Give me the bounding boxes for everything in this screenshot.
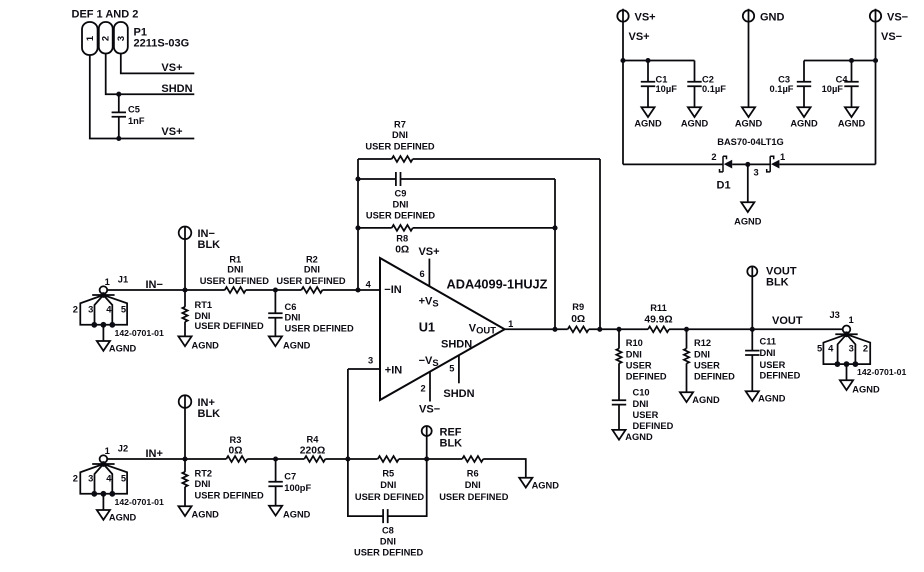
node R12 junction	[684, 327, 689, 332]
capacitor C8 loop	[348, 459, 427, 516]
terminal GND	[743, 10, 754, 21]
node SHDN junction	[116, 92, 121, 97]
svg-text:USER DEFINED: USER DEFINED	[366, 211, 436, 221]
svg-text:VS+: VS+	[629, 31, 650, 43]
svg-text:5: 5	[449, 364, 454, 374]
svg-text:C11: C11	[760, 337, 777, 347]
svg-text:VS−: VS−	[887, 12, 908, 24]
svg-text:R6: R6	[467, 468, 479, 478]
svg-text:2: 2	[421, 383, 426, 393]
svg-text:4: 4	[106, 303, 112, 314]
svg-text:DNI: DNI	[626, 350, 642, 360]
svg-text:R4: R4	[307, 434, 320, 444]
ground AGND under C11	[746, 391, 759, 401]
svg-text:C1: C1	[656, 74, 668, 84]
U1 pin 6 wire	[428, 259, 430, 286]
svg-text:BLK: BLK	[440, 437, 463, 449]
svg-text:R10: R10	[626, 338, 643, 348]
U1 pin 5 wire	[458, 355, 460, 383]
node output junction	[552, 327, 557, 332]
svg-text:1: 1	[780, 152, 785, 162]
svg-text:DEFINED: DEFINED	[633, 421, 674, 431]
svg-text:C2: C2	[702, 74, 714, 84]
connector J2	[80, 455, 127, 510]
svg-text:142-0701-01: 142-0701-01	[857, 367, 906, 377]
wire P1 pin3 to VS+	[121, 54, 195, 74]
svg-text:VS−: VS−	[881, 31, 902, 43]
svg-text:1: 1	[849, 314, 854, 325]
capacitor C3	[803, 61, 805, 108]
ground AGND under J2	[97, 510, 110, 520]
svg-text:R2: R2	[306, 254, 318, 264]
resistor R10	[616, 349, 621, 364]
svg-text:142-0701-01: 142-0701-01	[115, 497, 164, 507]
ground AGND under R12	[680, 392, 693, 402]
svg-text:DNI: DNI	[760, 348, 776, 358]
capacitor C4	[851, 61, 853, 108]
svg-text:IN+: IN+	[146, 448, 163, 460]
connector J1	[80, 286, 127, 341]
node VS- bus junction	[873, 58, 878, 63]
node C7 junction	[273, 456, 278, 461]
svg-text:2: 2	[100, 36, 111, 41]
svg-text:USER DEFINED: USER DEFINED	[195, 321, 265, 331]
wire C9 rail down	[554, 179, 556, 329]
capacitor C2	[694, 61, 696, 108]
connector P1	[82, 22, 128, 55]
svg-text:5: 5	[121, 472, 126, 483]
node C9 left junction	[355, 176, 360, 181]
svg-text:USER DEFINED: USER DEFINED	[439, 492, 509, 502]
svg-text:1: 1	[508, 319, 513, 329]
connector J3	[823, 326, 870, 381]
svg-text:AGND: AGND	[625, 432, 653, 442]
capacitor C6	[274, 290, 276, 336]
svg-text:J3: J3	[830, 310, 840, 320]
svg-text:C3: C3	[778, 74, 790, 84]
svg-text:3: 3	[115, 36, 126, 41]
svg-text:DNI: DNI	[694, 350, 710, 360]
node C11 junction	[750, 327, 755, 332]
svg-text:BLK: BLK	[198, 239, 221, 251]
svg-text:142-0701-01: 142-0701-01	[115, 328, 164, 338]
svg-text:C5: C5	[128, 104, 140, 114]
svg-text:DNI: DNI	[380, 537, 396, 547]
svg-text:RT2: RT2	[195, 468, 213, 478]
svg-text:R12: R12	[694, 338, 711, 348]
wire VS- cap bus	[804, 60, 876, 62]
svg-text:DNI: DNI	[227, 264, 243, 274]
svg-text:AGND: AGND	[192, 510, 220, 520]
ground AGND under GND	[742, 107, 755, 117]
svg-text:−VS: −VS	[419, 355, 439, 368]
diode D1 right half	[767, 156, 780, 172]
svg-text:AGND: AGND	[283, 510, 311, 520]
node -IN junction	[355, 287, 360, 292]
svg-text:3: 3	[368, 355, 373, 365]
resistor R3	[226, 456, 247, 462]
capacitor C7	[275, 459, 277, 506]
wire U1 output to R9	[505, 328, 568, 330]
svg-text:SHDN: SHDN	[443, 388, 474, 400]
wire R6 to ground	[483, 459, 526, 478]
svg-text:C10: C10	[633, 388, 650, 398]
wire VS+ vertical	[622, 9, 624, 165]
svg-text:VOUT: VOUT	[469, 322, 496, 335]
svg-text:C7: C7	[284, 472, 296, 482]
svg-text:1nF: 1nF	[128, 116, 145, 126]
svg-text:ADA4099-1HUJZ: ADA4099-1HUJZ	[447, 277, 548, 292]
svg-text:220Ω: 220Ω	[300, 445, 325, 456]
ground AGND under C1	[641, 107, 654, 117]
svg-text:USER: USER	[760, 360, 786, 370]
resistor R12	[684, 349, 689, 364]
wire J1 to R1	[107, 289, 380, 291]
wire R4 to R5 node	[325, 458, 377, 460]
svg-text:DEFINED: DEFINED	[760, 370, 801, 380]
resistor R1	[225, 287, 246, 293]
svg-text:+IN: +IN	[385, 364, 402, 376]
svg-text:DEF 1 AND 2: DEF 1 AND 2	[72, 9, 139, 21]
svg-text:AGND: AGND	[734, 217, 762, 227]
svg-text:AGND: AGND	[735, 119, 763, 129]
svg-text:AGND: AGND	[192, 340, 220, 350]
svg-text:R1: R1	[229, 254, 241, 264]
svg-text:DNI: DNI	[195, 479, 211, 489]
svg-text:AGND: AGND	[758, 394, 786, 404]
svg-text:IN−: IN−	[146, 279, 163, 291]
resistor R2	[301, 287, 322, 293]
ground AGND under C2	[688, 107, 701, 117]
resistor R11	[648, 326, 669, 332]
svg-text:AGND: AGND	[634, 119, 662, 129]
node RT1 junction	[182, 287, 187, 292]
svg-text:1: 1	[105, 276, 110, 287]
ground AGND under C3	[797, 107, 810, 117]
svg-text:DNI: DNI	[380, 480, 396, 490]
svg-text:C6: C6	[285, 302, 297, 312]
resistor RT2	[182, 472, 187, 487]
svg-text:1: 1	[84, 36, 95, 41]
svg-text:DNI: DNI	[465, 480, 481, 490]
svg-text:SHDN: SHDN	[441, 338, 472, 350]
svg-text:3: 3	[849, 343, 854, 354]
svg-text:2: 2	[73, 472, 78, 483]
svg-text:AGND: AGND	[692, 395, 720, 405]
svg-text:AGND: AGND	[852, 385, 880, 395]
svg-text:2: 2	[711, 152, 716, 162]
svg-text:AGND: AGND	[838, 119, 866, 129]
svg-text:10µF: 10µF	[656, 84, 678, 94]
ground AGND under C4	[845, 107, 858, 117]
svg-text:100pF: 100pF	[284, 483, 311, 493]
resistor R7	[358, 158, 600, 160]
terminal IN- BLK	[179, 227, 192, 240]
wire GND vertical	[748, 9, 750, 107]
wire VS+ rail to D1	[623, 163, 723, 165]
ground AGND under C10	[612, 430, 625, 440]
svg-text:0.1µF: 0.1µF	[770, 84, 794, 94]
svg-text:C4: C4	[836, 74, 849, 84]
svg-text:USER: USER	[626, 361, 652, 371]
resistor R9	[568, 326, 589, 332]
svg-text:5: 5	[817, 343, 822, 354]
ground AGND under J1	[97, 341, 110, 351]
node REF junction	[424, 456, 429, 461]
wire D1 to VS- rail	[779, 163, 875, 165]
U1 pin 2 wire	[429, 372, 431, 402]
svg-text:DEFINED: DEFINED	[626, 372, 667, 382]
node C4 junction	[849, 58, 854, 63]
svg-text:VS+: VS+	[161, 62, 182, 74]
svg-text:6: 6	[420, 269, 425, 279]
svg-text:VOUT: VOUT	[772, 315, 803, 327]
svg-text:0Ω: 0Ω	[571, 314, 585, 325]
svg-text:BLK: BLK	[198, 408, 221, 420]
svg-text:49.9Ω: 49.9Ω	[644, 314, 672, 325]
capacitor C11	[751, 329, 753, 391]
svg-text:4: 4	[366, 280, 372, 290]
svg-text:USER DEFINED: USER DEFINED	[285, 324, 355, 334]
diode D1 left half	[720, 156, 733, 172]
svg-text:USER DEFINED: USER DEFINED	[200, 276, 270, 286]
node R10 junction	[616, 327, 621, 332]
svg-text:0Ω: 0Ω	[395, 245, 409, 256]
svg-text:10µF: 10µF	[822, 84, 844, 94]
terminal VOUT BLK	[747, 266, 757, 276]
svg-text:VS+: VS+	[418, 246, 439, 258]
svg-text:2211S-03G: 2211S-03G	[134, 38, 190, 50]
svg-text:USER DEFINED: USER DEFINED	[354, 548, 424, 558]
wire R5 to REF node	[399, 458, 462, 460]
terminal VS-	[870, 10, 881, 21]
resistor RT1	[182, 307, 187, 322]
svg-text:DNI: DNI	[392, 130, 408, 140]
svg-text:GND: GND	[760, 12, 785, 24]
ground AGND under C6	[269, 336, 282, 346]
svg-text:VS+: VS+	[635, 12, 656, 24]
ground AGND after R6	[519, 478, 532, 488]
svg-text:C8: C8	[382, 526, 394, 536]
svg-text:+VS: +VS	[419, 295, 439, 308]
svg-text:C9: C9	[395, 189, 407, 199]
resistor R8	[358, 227, 555, 229]
wire -IN rail	[357, 159, 359, 290]
wire +IN riser	[348, 369, 380, 459]
svg-text:USER DEFINED: USER DEFINED	[195, 490, 265, 500]
node R8 left junction	[355, 225, 360, 230]
svg-text:AGND: AGND	[790, 119, 818, 129]
wire D1 center	[732, 163, 770, 165]
svg-text:R9: R9	[572, 302, 584, 312]
node C6 junction	[273, 287, 278, 292]
op-amp U1	[380, 258, 505, 400]
node feedback junction	[597, 327, 602, 332]
capacitor C5	[118, 94, 120, 138]
svg-text:U1: U1	[419, 319, 435, 334]
svg-text:DNI: DNI	[195, 311, 211, 321]
svg-text:R5: R5	[382, 468, 394, 478]
svg-text:4: 4	[828, 343, 834, 354]
svg-text:D1: D1	[717, 180, 731, 192]
node D1 pin 3	[745, 162, 750, 167]
svg-text:3: 3	[754, 168, 759, 178]
node C5 bottom junction	[116, 136, 121, 141]
svg-text:AGND: AGND	[109, 512, 137, 522]
svg-text:BLK: BLK	[766, 276, 789, 288]
node R8 right junction	[552, 225, 557, 230]
svg-text:R3: R3	[230, 435, 242, 445]
svg-text:3: 3	[88, 303, 93, 314]
wire VS- vertical	[875, 9, 877, 165]
wire P1 pin1 to VS+	[90, 55, 195, 139]
svg-text:5: 5	[121, 303, 126, 314]
wire D1 pin3 to ground	[747, 164, 749, 202]
svg-text:DNI: DNI	[392, 199, 408, 209]
svg-text:USER DEFINED: USER DEFINED	[355, 492, 425, 502]
node VS+ bus junction	[620, 58, 625, 63]
svg-text:DNI: DNI	[304, 264, 320, 274]
svg-text:DNI: DNI	[285, 312, 301, 322]
capacitor C9	[358, 178, 555, 180]
resistor R6	[462, 456, 483, 462]
resistor R4	[304, 456, 325, 462]
svg-text:AGND: AGND	[532, 480, 560, 490]
svg-text:4: 4	[106, 472, 112, 483]
node RT2 junction	[182, 456, 187, 461]
ground AGND under D1	[741, 202, 754, 212]
wire R7 to output	[599, 159, 601, 329]
wire P1 pin2 to SHDN	[106, 54, 195, 95]
svg-text:DEFINED: DEFINED	[694, 372, 735, 382]
svg-text:AGND: AGND	[681, 119, 709, 129]
svg-text:USER DEFINED: USER DEFINED	[276, 276, 346, 286]
terminal REF BLK	[422, 426, 432, 436]
node C1 junction	[645, 58, 650, 63]
svg-text:USER DEFINED: USER DEFINED	[365, 141, 435, 151]
svg-text:2: 2	[73, 303, 78, 314]
svg-text:0Ω: 0Ω	[229, 445, 243, 456]
svg-text:J2: J2	[118, 443, 128, 453]
capacitor C1	[647, 61, 649, 108]
svg-text:VS+: VS+	[161, 126, 182, 138]
svg-text:DNI: DNI	[633, 399, 649, 409]
capacitor C10	[612, 400, 626, 404]
node +IN junction	[345, 456, 350, 461]
resistor R5	[378, 456, 399, 462]
ground AGND under C7	[269, 506, 282, 516]
svg-text:USER: USER	[633, 410, 659, 420]
svg-text:J1: J1	[118, 274, 128, 284]
svg-text:0.1µF: 0.1µF	[702, 84, 726, 94]
svg-text:BAS70-04LT1G: BAS70-04LT1G	[717, 137, 783, 147]
svg-text:RT1: RT1	[195, 300, 213, 310]
svg-text:USER: USER	[694, 361, 720, 371]
wire R3 to R4	[247, 458, 304, 460]
wire VS+ cap bus	[623, 60, 695, 62]
ground AGND under RT2	[178, 506, 191, 516]
svg-text:R11: R11	[650, 303, 667, 313]
wire R11 to J3	[669, 328, 843, 330]
ground AGND under J3	[840, 380, 853, 390]
svg-text:3: 3	[88, 472, 93, 483]
wire J2 to R3	[107, 458, 226, 460]
svg-text:2: 2	[863, 343, 868, 354]
svg-text:1: 1	[105, 445, 110, 456]
svg-text:AGND: AGND	[283, 340, 311, 350]
svg-text:VS−: VS−	[419, 403, 440, 415]
svg-text:AGND: AGND	[109, 343, 137, 353]
terminal VS+	[617, 10, 628, 21]
wire R9 to R11	[589, 328, 648, 330]
ground AGND under RT1	[178, 336, 191, 346]
svg-text:R7: R7	[394, 119, 406, 129]
svg-text:SHDN: SHDN	[161, 83, 192, 95]
terminal IN+ BLK	[179, 395, 192, 408]
svg-text:−IN: −IN	[384, 284, 401, 296]
svg-text:R8: R8	[396, 233, 408, 243]
